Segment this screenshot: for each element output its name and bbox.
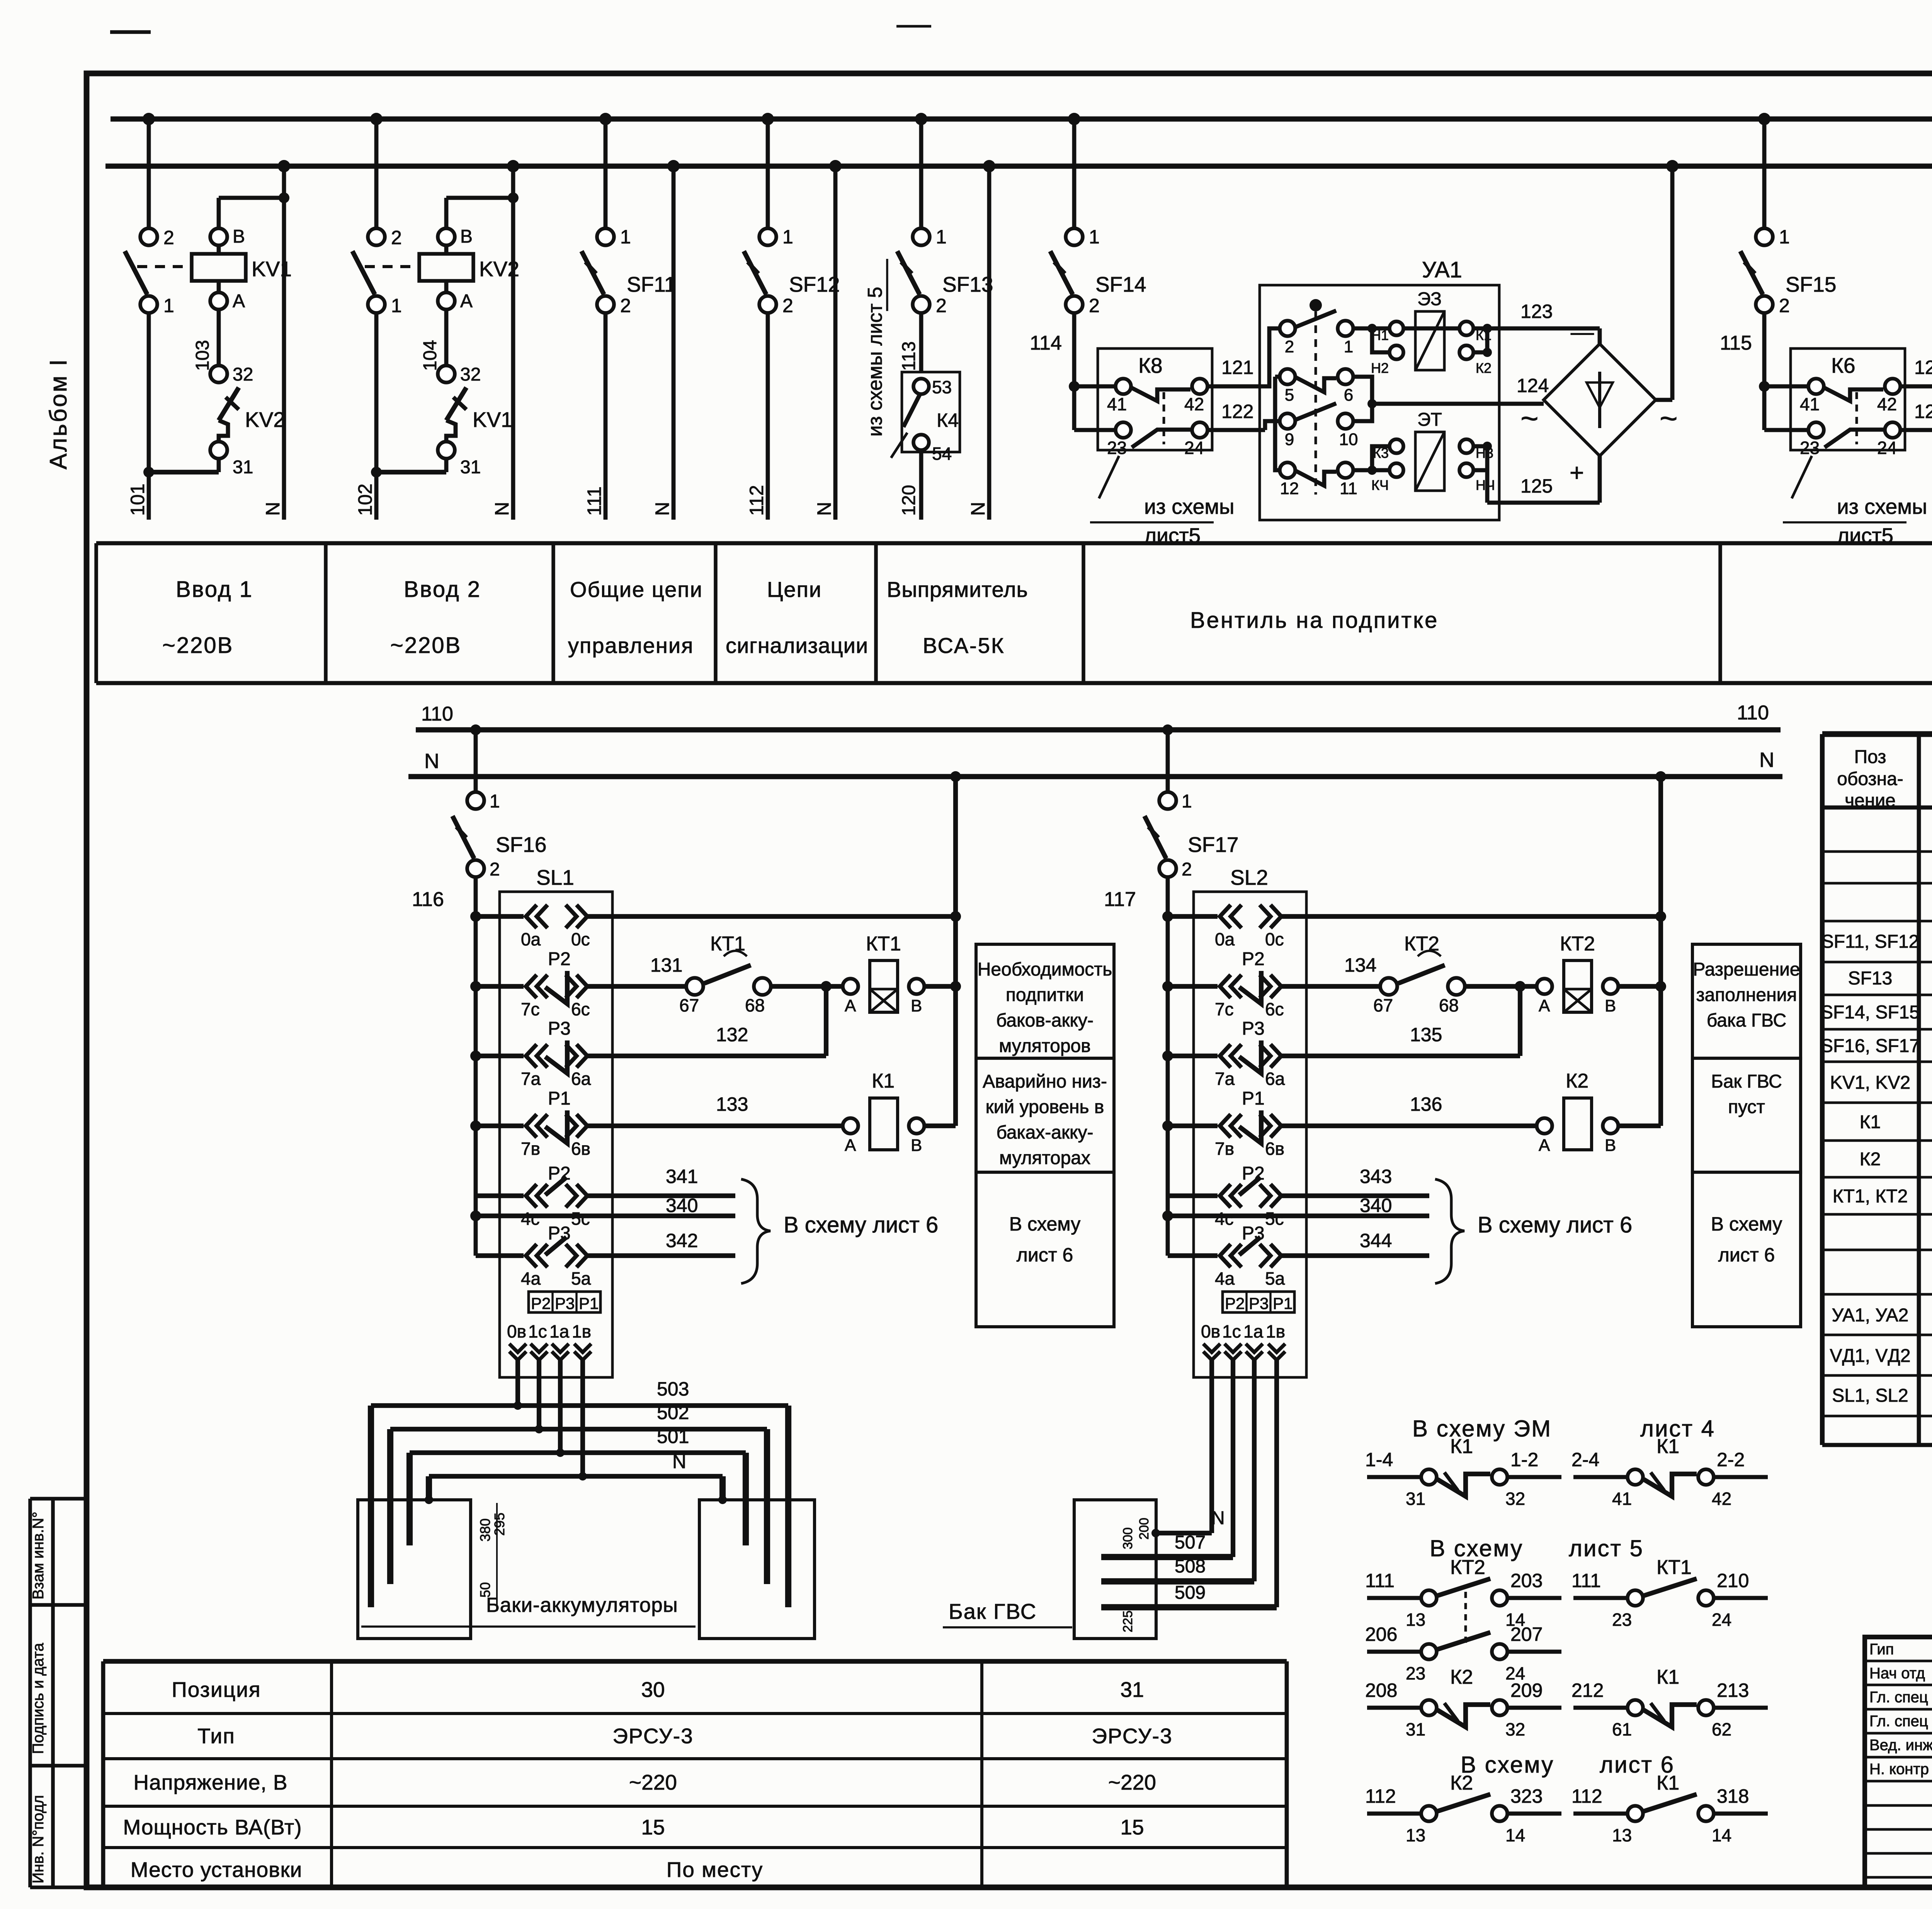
- svg-text:кий уровень в: кий уровень в: [986, 1097, 1104, 1117]
- svg-text:14: 14: [1712, 1825, 1731, 1845]
- svg-text:41: 41: [1107, 394, 1127, 414]
- svg-text:120: 120: [899, 485, 919, 516]
- svg-text:Н3: Н3: [1476, 445, 1493, 461]
- svg-text:1: 1: [1344, 337, 1353, 356]
- svg-text:KV1, KV2: KV1, KV2: [1830, 1073, 1910, 1093]
- svg-text:Н1: Н1: [1371, 327, 1389, 343]
- svg-text:1: 1: [163, 295, 174, 316]
- svg-text:из схемы: из схемы: [1837, 495, 1927, 518]
- svg-text:Нач отд: Нач отд: [1869, 1665, 1925, 1682]
- svg-text:112: 112: [1571, 1785, 1602, 1807]
- svg-text:KV1: KV1: [473, 408, 513, 432]
- svg-text:132: 132: [716, 1024, 748, 1045]
- svg-text:из схемы: из схемы: [1144, 495, 1235, 518]
- svg-text:Н. контр: Н. контр: [1869, 1761, 1929, 1778]
- svg-text:7с: 7с: [1215, 999, 1234, 1019]
- svg-text:Инв. N°подл: Инв. N°подл: [30, 1795, 47, 1884]
- svg-text:К2: К2: [1450, 1772, 1473, 1794]
- svg-text:53: 53: [932, 377, 952, 397]
- svg-text:баках-акку-: баках-акку-: [996, 1122, 1093, 1143]
- svg-text:2-2: 2-2: [1717, 1449, 1745, 1470]
- svg-text:К3: К3: [1373, 445, 1389, 461]
- svg-text:212: 212: [1571, 1680, 1604, 1701]
- svg-text:SF11: SF11: [627, 272, 676, 296]
- svg-text:13: 13: [1406, 1825, 1425, 1845]
- svg-text:121: 121: [1221, 357, 1253, 378]
- svg-text:Р1: Р1: [1242, 1088, 1265, 1109]
- svg-text:Необходимость: Необходимость: [978, 959, 1112, 980]
- svg-text:24: 24: [1184, 438, 1204, 458]
- svg-text:баков-акку-: баков-акку-: [996, 1010, 1094, 1031]
- svg-text:110: 110: [1737, 702, 1769, 724]
- svg-text:~220: ~220: [629, 1770, 677, 1794]
- svg-text:сигнализации: сигнализации: [726, 633, 868, 658]
- svg-text:Гип: Гип: [1869, 1641, 1894, 1658]
- svg-text:341: 341: [666, 1166, 698, 1187]
- svg-text:300: 300: [1121, 1527, 1135, 1549]
- svg-text:Р3: Р3: [1242, 1018, 1265, 1039]
- svg-text:КЧ: КЧ: [1371, 477, 1389, 493]
- svg-text:123: 123: [1520, 301, 1553, 322]
- svg-text:Гл. спец: Гл. спец: [1869, 1689, 1928, 1706]
- svg-text:112: 112: [1365, 1785, 1396, 1807]
- svg-text:пуст: пуст: [1728, 1097, 1765, 1117]
- svg-text:В схему ЭМ: В схему ЭМ: [1412, 1416, 1552, 1442]
- svg-text:—: —: [1571, 319, 1594, 345]
- svg-text:200: 200: [1137, 1518, 1151, 1540]
- svg-text:507: 507: [1175, 1532, 1206, 1553]
- svg-text:4а: 4а: [521, 1268, 541, 1289]
- svg-text:2: 2: [163, 227, 174, 248]
- svg-text:заполнения: заполнения: [1696, 985, 1797, 1005]
- svg-text:Подпись и дата: Подпись и дата: [30, 1643, 47, 1754]
- svg-text:6: 6: [1344, 386, 1353, 405]
- svg-text:323: 323: [1510, 1785, 1543, 1807]
- svg-text:295: 295: [492, 1513, 507, 1536]
- svg-text:1: 1: [1779, 226, 1790, 248]
- svg-text:111: 111: [1571, 1570, 1601, 1591]
- svg-text:127: 127: [1914, 401, 1932, 422]
- svg-text:НЧ: НЧ: [1476, 477, 1495, 493]
- svg-text:32: 32: [1505, 1719, 1525, 1739]
- svg-text:101: 101: [127, 484, 148, 516]
- svg-text:5: 5: [1285, 386, 1294, 405]
- svg-text:К1: К1: [1656, 1435, 1679, 1458]
- svg-text:В схему лист 6: В схему лист 6: [1478, 1212, 1632, 1238]
- svg-text:343: 343: [1360, 1166, 1392, 1187]
- svg-text:К6: К6: [1831, 354, 1855, 377]
- svg-text:6с: 6с: [571, 999, 590, 1019]
- svg-text:Вентиль на подпитке: Вентиль на подпитке: [1190, 608, 1439, 633]
- svg-text:2: 2: [936, 295, 947, 316]
- svg-text:41: 41: [1612, 1489, 1632, 1509]
- svg-text:N: N: [813, 502, 835, 516]
- svg-text:0с: 0с: [571, 929, 590, 949]
- svg-text:1-2: 1-2: [1510, 1449, 1538, 1470]
- svg-text:1а: 1а: [1243, 1321, 1264, 1341]
- svg-text:7в: 7в: [1215, 1139, 1234, 1159]
- svg-text:N: N: [672, 1451, 686, 1472]
- svg-text:Р1: Р1: [548, 1088, 571, 1109]
- svg-text:7в: 7в: [521, 1139, 540, 1159]
- svg-text:6в: 6в: [571, 1139, 590, 1159]
- svg-text:Поз: Поз: [1854, 747, 1886, 767]
- svg-text:обозна-: обозна-: [1837, 769, 1903, 789]
- svg-text:125: 125: [1520, 475, 1553, 497]
- svg-text:В: В: [460, 226, 473, 247]
- svg-text:SL1: SL1: [536, 865, 574, 889]
- svg-text:В: В: [233, 226, 245, 247]
- svg-text:134: 134: [1344, 954, 1376, 976]
- svg-text:502: 502: [657, 1402, 689, 1423]
- svg-text:А: А: [845, 1136, 856, 1155]
- svg-text:SF17: SF17: [1188, 833, 1238, 857]
- svg-text:Взам инв.N°: Взам инв.N°: [30, 1511, 47, 1600]
- svg-text:Бак ГВС: Бак ГВС: [1711, 1071, 1782, 1092]
- svg-text:6в: 6в: [1265, 1139, 1284, 1159]
- svg-text:133: 133: [716, 1093, 748, 1115]
- svg-text:380: 380: [477, 1518, 493, 1542]
- svg-text:225: 225: [1121, 1610, 1135, 1632]
- svg-text:Ввод 1: Ввод 1: [176, 577, 253, 602]
- svg-text:бака ГВС: бака ГВС: [1707, 1010, 1786, 1031]
- svg-text:318: 318: [1717, 1785, 1749, 1807]
- svg-text:К4: К4: [937, 410, 959, 431]
- svg-text:А: А: [233, 291, 245, 311]
- svg-text:10: 10: [1339, 430, 1358, 449]
- svg-text:управления: управления: [568, 633, 694, 658]
- svg-text:110: 110: [421, 703, 453, 725]
- svg-text:5а: 5а: [1265, 1268, 1285, 1289]
- svg-text:N: N: [491, 502, 513, 516]
- svg-text:лист 6: лист 6: [1017, 1244, 1073, 1266]
- svg-text:31: 31: [233, 457, 253, 478]
- svg-text:122: 122: [1221, 401, 1253, 422]
- svg-text:КТ1, КТ2: КТ1, КТ2: [1833, 1186, 1908, 1207]
- svg-text:6с: 6с: [1265, 999, 1284, 1019]
- svg-text:SF16: SF16: [496, 833, 546, 857]
- svg-text:31: 31: [1406, 1719, 1425, 1739]
- svg-text:1в: 1в: [572, 1321, 591, 1341]
- svg-text:23: 23: [1107, 438, 1127, 458]
- svg-text:из схемы лист 5: из схемы лист 5: [864, 287, 886, 437]
- svg-text:12: 12: [1280, 479, 1299, 498]
- svg-text:32: 32: [460, 364, 481, 385]
- svg-text:0с: 0с: [1265, 929, 1284, 949]
- svg-text:344: 344: [1360, 1230, 1392, 1251]
- svg-text:Мощность ВА(Вт): Мощность ВА(Вт): [123, 1815, 302, 1839]
- svg-text:342: 342: [666, 1230, 698, 1251]
- svg-text:102: 102: [354, 484, 376, 516]
- svg-text:111: 111: [1365, 1570, 1395, 1591]
- svg-text:Р1: Р1: [1273, 1294, 1293, 1312]
- svg-text:К2: К2: [1860, 1149, 1881, 1170]
- svg-text:Вед. инж: Вед. инж: [1869, 1737, 1932, 1754]
- svg-text:К2: К2: [1450, 1666, 1473, 1688]
- svg-text:SF16, SF17: SF16, SF17: [1821, 1036, 1920, 1056]
- svg-text:7а: 7а: [1215, 1069, 1235, 1089]
- svg-text:К1: К1: [1656, 1666, 1679, 1688]
- svg-text:1с: 1с: [1222, 1321, 1241, 1341]
- svg-text:2: 2: [490, 859, 500, 880]
- svg-text:чение: чение: [1845, 790, 1896, 811]
- svg-text:112: 112: [746, 485, 767, 516]
- svg-text:Р2: Р2: [1225, 1294, 1245, 1312]
- svg-text:62: 62: [1712, 1719, 1731, 1739]
- svg-text:203: 203: [1510, 1570, 1543, 1591]
- svg-text:0а: 0а: [521, 929, 541, 949]
- svg-text:1: 1: [936, 226, 947, 248]
- svg-text:501: 501: [657, 1426, 689, 1447]
- svg-text:210: 210: [1717, 1570, 1749, 1591]
- svg-text:А: А: [1539, 1136, 1550, 1155]
- svg-text:А: А: [845, 996, 856, 1015]
- svg-text:Н2: Н2: [1371, 360, 1389, 376]
- svg-text:КТ2: КТ2: [1450, 1556, 1485, 1579]
- svg-text:SF14, SF15: SF14, SF15: [1821, 1002, 1920, 1023]
- svg-text:ЭРСУ-3: ЭРСУ-3: [1092, 1724, 1172, 1748]
- svg-text:муляторов: муляторов: [999, 1036, 1091, 1056]
- svg-text:6а: 6а: [1265, 1069, 1285, 1089]
- svg-text:7с: 7с: [521, 999, 540, 1019]
- svg-text:1: 1: [1182, 791, 1192, 812]
- svg-text:14: 14: [1505, 1825, 1525, 1845]
- svg-text:1: 1: [391, 295, 402, 316]
- svg-text:1в: 1в: [1266, 1321, 1285, 1341]
- svg-text:32: 32: [1505, 1489, 1525, 1509]
- svg-text:124: 124: [1517, 375, 1549, 396]
- svg-text:Альбом I: Альбом I: [45, 358, 72, 469]
- svg-text:1-4: 1-4: [1365, 1449, 1393, 1470]
- svg-text:42: 42: [1712, 1489, 1731, 1509]
- svg-text:31: 31: [1406, 1489, 1425, 1509]
- svg-text:1: 1: [782, 226, 793, 248]
- svg-text:SF12: SF12: [789, 272, 840, 296]
- svg-text:Выпрямитель: Выпрямитель: [887, 577, 1028, 602]
- svg-text:Напряжение, В: Напряжение, В: [133, 1770, 287, 1794]
- svg-text:68: 68: [745, 995, 765, 1015]
- svg-text:SF14: SF14: [1095, 272, 1146, 296]
- svg-text:Р1: Р1: [579, 1294, 599, 1312]
- svg-text:67: 67: [1373, 995, 1393, 1015]
- svg-text:31: 31: [1120, 1678, 1144, 1702]
- svg-text:5с: 5с: [1265, 1209, 1284, 1229]
- svg-text:1: 1: [620, 226, 631, 248]
- svg-text:131: 131: [650, 954, 682, 976]
- svg-text:Р2: Р2: [548, 949, 571, 969]
- svg-text:KV2: KV2: [245, 408, 285, 432]
- svg-text:SF13: SF13: [942, 272, 993, 296]
- svg-text:41: 41: [1800, 394, 1820, 414]
- svg-text:В схему: В схему: [1711, 1213, 1782, 1235]
- svg-text:23: 23: [1800, 438, 1820, 458]
- svg-text:11: 11: [1340, 479, 1357, 498]
- svg-text:Р3: Р3: [548, 1018, 571, 1039]
- svg-text:УА1, УА2: УА1, УА2: [1832, 1305, 1909, 1326]
- svg-text:1с: 1с: [528, 1321, 547, 1341]
- svg-text:Общие цепи: Общие цепи: [570, 577, 703, 602]
- svg-text:муляторах: муляторах: [999, 1148, 1090, 1168]
- svg-text:340: 340: [1360, 1195, 1392, 1216]
- svg-text:+: +: [1570, 459, 1584, 486]
- svg-text:7а: 7а: [521, 1069, 541, 1089]
- svg-text:31: 31: [460, 457, 481, 478]
- svg-text:В: В: [1605, 996, 1616, 1015]
- svg-text:ВСА-5К: ВСА-5К: [923, 633, 1005, 658]
- svg-text:114: 114: [1030, 332, 1062, 354]
- svg-text:КТ1: КТ1: [1656, 1556, 1692, 1579]
- svg-text:209: 209: [1510, 1680, 1543, 1701]
- svg-text:Ввод 2: Ввод 2: [404, 577, 481, 602]
- svg-text:13: 13: [1406, 1610, 1425, 1630]
- svg-text:15: 15: [641, 1815, 665, 1839]
- svg-text:68: 68: [1439, 995, 1459, 1015]
- svg-text:2: 2: [1089, 295, 1100, 316]
- svg-text:Бак ГВС: Бак ГВС: [949, 1599, 1037, 1623]
- svg-text:ЭЗ: ЭЗ: [1417, 289, 1442, 309]
- svg-text:SF15: SF15: [1786, 272, 1836, 296]
- svg-text:~220: ~220: [1108, 1770, 1156, 1794]
- svg-text:2: 2: [391, 227, 402, 248]
- svg-text:117: 117: [1104, 888, 1136, 911]
- svg-text:42: 42: [1184, 394, 1204, 414]
- svg-text:N: N: [651, 502, 673, 516]
- svg-text:1: 1: [1089, 226, 1100, 248]
- svg-text:4а: 4а: [1215, 1268, 1235, 1289]
- svg-text:Позиция: Позиция: [172, 1678, 261, 1702]
- svg-text:103: 103: [192, 340, 213, 371]
- svg-text:В схему: В схему: [1461, 1752, 1554, 1778]
- svg-text:5с: 5с: [571, 1209, 590, 1229]
- svg-text:2-4: 2-4: [1571, 1449, 1599, 1470]
- svg-text:9: 9: [1285, 430, 1294, 449]
- svg-text:КТ2: КТ2: [1560, 933, 1595, 955]
- svg-text:2: 2: [1182, 859, 1192, 880]
- svg-text:207: 207: [1510, 1623, 1543, 1645]
- svg-text:КТ1: КТ1: [866, 933, 901, 955]
- svg-text:6а: 6а: [571, 1069, 591, 1089]
- svg-text:113: 113: [899, 341, 919, 371]
- svg-text:Гл. спец: Гл. спец: [1869, 1713, 1928, 1730]
- svg-text:340: 340: [666, 1195, 698, 1216]
- svg-text:УА1: УА1: [1422, 257, 1462, 282]
- svg-text:509: 509: [1175, 1583, 1206, 1603]
- svg-text:Р3: Р3: [555, 1294, 575, 1312]
- svg-text:1: 1: [490, 791, 500, 812]
- svg-text:206: 206: [1365, 1623, 1397, 1645]
- svg-text:подпитки: подпитки: [1006, 985, 1084, 1005]
- svg-text:116: 116: [412, 888, 444, 911]
- svg-text:4с: 4с: [521, 1209, 540, 1229]
- svg-text:15: 15: [1120, 1815, 1144, 1839]
- svg-text:VД1, VД2: VД1, VД2: [1830, 1346, 1910, 1366]
- svg-text:N: N: [1211, 1508, 1225, 1528]
- svg-text:ЭТ: ЭТ: [1417, 410, 1442, 430]
- svg-text:61: 61: [1612, 1719, 1632, 1739]
- svg-text:Р3: Р3: [1249, 1294, 1269, 1312]
- svg-text:~: ~: [1660, 401, 1678, 435]
- svg-text:24: 24: [1877, 438, 1897, 458]
- svg-text:~220В: ~220В: [390, 633, 461, 658]
- svg-text:42: 42: [1877, 394, 1897, 414]
- svg-text:А: А: [1539, 996, 1550, 1015]
- svg-text:5а: 5а: [571, 1268, 591, 1289]
- svg-text:2: 2: [620, 295, 631, 316]
- svg-text:N: N: [1759, 748, 1774, 772]
- svg-text:SL1, SL2: SL1, SL2: [1832, 1385, 1908, 1406]
- svg-text:1а: 1а: [549, 1321, 570, 1341]
- svg-text:Место установки: Место установки: [131, 1858, 302, 1882]
- svg-text:213: 213: [1717, 1680, 1749, 1701]
- svg-text:4с: 4с: [1215, 1209, 1234, 1229]
- svg-text:Р2: Р2: [531, 1294, 551, 1312]
- svg-text:ЭРСУ-3: ЭРСУ-3: [612, 1724, 693, 1748]
- svg-text:По месту: По месту: [667, 1858, 764, 1882]
- svg-text:К2: К2: [1566, 1070, 1588, 1092]
- svg-text:SF11, SF12: SF11, SF12: [1821, 932, 1919, 952]
- svg-text:Р2: Р2: [1242, 949, 1265, 969]
- svg-text:126: 126: [1914, 357, 1932, 378]
- svg-text:N: N: [424, 750, 439, 773]
- svg-text:~220В: ~220В: [162, 633, 233, 658]
- svg-text:~: ~: [1520, 401, 1539, 435]
- svg-text:SL2: SL2: [1230, 865, 1268, 889]
- svg-text:2: 2: [1285, 337, 1294, 356]
- svg-text:23: 23: [1406, 1663, 1425, 1683]
- svg-text:503: 503: [657, 1378, 689, 1400]
- svg-text:Тип: Тип: [197, 1724, 235, 1748]
- svg-text:В: В: [911, 996, 922, 1015]
- svg-text:111: 111: [583, 486, 605, 516]
- svg-text:В: В: [1605, 1136, 1616, 1155]
- svg-text:13: 13: [1612, 1825, 1632, 1845]
- svg-text:135: 135: [1410, 1024, 1442, 1045]
- svg-text:В схему лист 6: В схему лист 6: [784, 1212, 938, 1238]
- svg-text:115: 115: [1720, 332, 1752, 354]
- svg-text:136: 136: [1410, 1093, 1442, 1115]
- svg-text:К8: К8: [1138, 354, 1163, 377]
- svg-text:2: 2: [1779, 295, 1790, 316]
- svg-text:0в: 0в: [507, 1321, 526, 1341]
- svg-text:Цепи: Цепи: [767, 577, 822, 602]
- svg-text:0а: 0а: [1215, 929, 1235, 949]
- svg-text:30: 30: [641, 1678, 665, 1702]
- svg-text:К1: К1: [1860, 1112, 1881, 1132]
- svg-text:32: 32: [233, 364, 253, 385]
- svg-text:N: N: [262, 502, 284, 516]
- svg-text:Разрешение: Разрешение: [1693, 959, 1800, 980]
- svg-text:0в: 0в: [1201, 1321, 1220, 1341]
- svg-text:К1: К1: [1656, 1772, 1679, 1794]
- svg-text:23: 23: [1612, 1610, 1632, 1630]
- svg-text:К2: К2: [1476, 360, 1492, 376]
- svg-text:67: 67: [679, 995, 699, 1015]
- svg-text:К1: К1: [1450, 1435, 1473, 1458]
- svg-text:К1: К1: [872, 1070, 895, 1092]
- svg-text:508: 508: [1175, 1556, 1206, 1577]
- svg-text:В: В: [911, 1136, 922, 1155]
- svg-text:208: 208: [1365, 1680, 1397, 1701]
- svg-text:А: А: [460, 291, 473, 311]
- svg-text:24: 24: [1712, 1610, 1731, 1630]
- svg-text:лист 6: лист 6: [1718, 1244, 1775, 1266]
- svg-text:SF13: SF13: [1848, 968, 1893, 989]
- svg-text:54: 54: [932, 444, 952, 464]
- svg-text:104: 104: [420, 340, 440, 371]
- svg-text:2: 2: [782, 295, 793, 316]
- svg-text:Аварийно низ-: Аварийно низ-: [983, 1071, 1107, 1092]
- svg-text:В схему: В схему: [1009, 1213, 1080, 1235]
